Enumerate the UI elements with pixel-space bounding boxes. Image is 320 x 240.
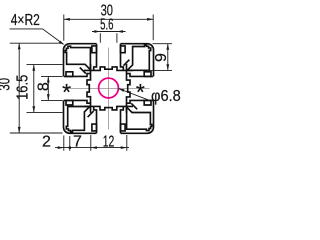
- svg-text:30: 30: [0, 78, 14, 91]
- svg-text:8: 8: [36, 82, 53, 91]
- svg-text:*: *: [136, 79, 145, 105]
- svg-text:φ6.8: φ6.8: [151, 88, 181, 105]
- svg-text:7: 7: [73, 133, 82, 150]
- svg-text:5.6: 5.6: [100, 17, 113, 34]
- svg-text:9: 9: [153, 53, 170, 62]
- svg-text:2: 2: [42, 133, 51, 150]
- svg-text:*: *: [62, 79, 71, 105]
- svg-text:16.5: 16.5: [14, 75, 31, 100]
- svg-text:4×R2: 4×R2: [11, 12, 40, 29]
- svg-text:12: 12: [103, 133, 115, 150]
